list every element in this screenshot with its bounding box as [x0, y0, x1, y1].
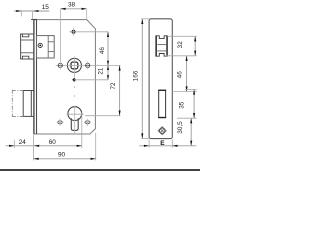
center point marker (21 reference diamond) [72, 78, 76, 82]
latch top bevel notch [22, 34, 28, 37]
dimension 60 [34, 145, 39, 147]
svg-text:24: 24 [19, 139, 27, 146]
dimension 46 (faceplate) [186, 56, 188, 92]
svg-text:90: 90 [58, 151, 66, 158]
deadbolt cutout front view [159, 90, 166, 117]
svg-text:38: 38 [68, 2, 76, 9]
dimension E [139, 145, 196, 147]
right rivet near cylinder [85, 121, 90, 124]
svg-text:72: 72 [110, 82, 117, 90]
dimension 35 [185, 88, 197, 90]
dimension 15 [14, 10, 49, 12]
left rivet near cylinder [58, 121, 63, 124]
svg-text:21: 21 [97, 67, 104, 75]
euro profile cylinder circle [68, 107, 82, 121]
dimension 30,5 [190, 118, 192, 146]
top hole centerline / 46 extension [69, 31, 108, 33]
follower horizontal centerline / ext to dims [56, 64, 121, 66]
diamond extension line [74, 79, 108, 81]
follower (square spindle hub) [67, 58, 81, 72]
svg-text:35: 35 [179, 101, 186, 109]
latch interior lines [21, 39, 34, 41]
svg-text:166: 166 [132, 70, 139, 81]
lock body outline (side view) [34, 20, 96, 134]
latch inner box (inside case) [37, 36, 55, 58]
right screw near follower [86, 63, 90, 67]
dimension 166 [141, 19, 143, 139]
dimension 21 [107, 65, 109, 79]
latch bottom bevel notch [22, 56, 28, 59]
svg-text:E: E [160, 140, 165, 147]
dimension 38 [60, 8, 86, 10]
svg-text:32: 32 [177, 41, 184, 49]
follower vertical centerline [73, 57, 75, 78]
latch inner divider [47, 36, 49, 58]
cylinder crosshair [67, 113, 84, 115]
dimension 24 [6, 145, 82, 147]
bottom border bar [0, 169, 200, 171]
latch bolt outer part (side view) [21, 34, 34, 59]
dimension 90 [34, 158, 96, 160]
faceplate screw hole symbol [158, 127, 166, 135]
svg-text:46: 46 [176, 71, 183, 79]
cylinder keyway stem [71, 118, 78, 130]
faceplate (side view edge strip) [33, 19, 35, 134]
svg-text:15: 15 [42, 4, 50, 11]
svg-text:46: 46 [99, 47, 106, 55]
left screw near follower [58, 63, 62, 67]
svg-text:60: 60 [49, 139, 57, 146]
dimension 72 [119, 65, 121, 115]
faceplate front view [149, 19, 172, 139]
dimension 46 (side view) [107, 32, 109, 66]
latch cutout front view [156, 36, 168, 56]
deadbolt thrown position (dash-dot outline) [11, 90, 13, 117]
top fixing hole [72, 30, 76, 34]
svg-text:30,5: 30,5 [177, 121, 184, 134]
latch pivot pin [38, 43, 42, 47]
deadbolt retracted (solid) [23, 90, 34, 92]
dimension 32 [167, 35, 196, 37]
